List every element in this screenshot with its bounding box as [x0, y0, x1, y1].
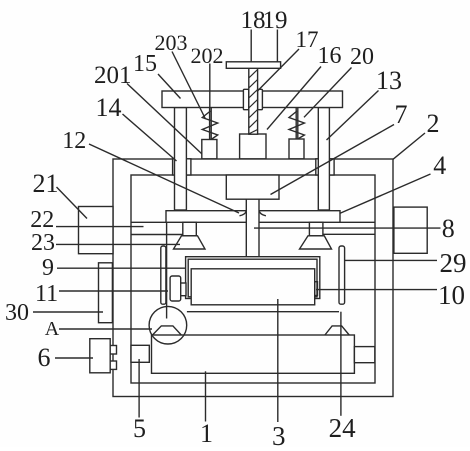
leader 6	[55, 357, 93, 359]
label 4	[433, 153, 446, 179]
label 3	[272, 423, 286, 450]
collar right flange	[258, 89, 263, 109]
base conveyor box 1	[152, 335, 355, 373]
detail circle A	[149, 306, 187, 344]
hanging rod into circle A	[166, 222, 168, 318]
left post 14	[175, 108, 187, 211]
leader A	[59, 328, 152, 330]
right step box	[354, 347, 374, 363]
leader 16	[267, 67, 321, 130]
side box 6	[90, 339, 110, 373]
left spring zigzag 203	[202, 111, 217, 140]
leader 2	[393, 133, 425, 159]
leader 22	[56, 226, 144, 228]
leader 1	[205, 371, 207, 421]
press plate 4	[166, 211, 340, 223]
left motor box 11	[170, 276, 181, 301]
leader 4	[340, 174, 431, 214]
platform line	[187, 311, 339, 313]
left slider foot	[202, 140, 217, 159]
leader 203	[172, 52, 206, 120]
outer housing box 2	[113, 159, 393, 397]
leader 7	[271, 125, 395, 195]
label 11	[35, 282, 58, 306]
leader 12	[89, 144, 239, 213]
label 24	[329, 415, 356, 442]
label 21	[33, 171, 59, 197]
leader 21	[57, 187, 88, 219]
label 5	[133, 416, 146, 442]
label 6	[38, 345, 51, 371]
label 13	[376, 68, 402, 94]
label 29	[440, 250, 467, 277]
right fillet at rod base	[259, 211, 266, 216]
right post 13	[318, 108, 329, 211]
right suction cup	[300, 236, 332, 249]
box 6 upper tab	[110, 346, 116, 355]
label 8	[442, 216, 455, 242]
label 16	[318, 44, 342, 68]
left bushing	[173, 159, 191, 175]
right pipe	[323, 222, 375, 234]
inner housing wall	[131, 175, 375, 383]
left feed box 21	[79, 207, 114, 254]
left suction neck	[183, 222, 197, 236]
box 6 lower tab	[110, 361, 116, 369]
label 2	[427, 111, 440, 137]
leader 18	[250, 30, 252, 62]
leader 15	[158, 74, 181, 99]
label 203	[155, 32, 188, 54]
leader 13	[327, 91, 379, 141]
left bump in circle A	[153, 326, 182, 335]
leader 23	[56, 243, 180, 245]
leader 3	[277, 299, 279, 422]
roller frame outer 10	[186, 257, 320, 299]
roller frame inner	[188, 259, 317, 297]
right bushing	[316, 159, 334, 175]
handle 19	[226, 62, 280, 69]
right suction neck	[309, 222, 323, 236]
press rod	[246, 199, 259, 257]
left fillet at rod base	[240, 211, 247, 216]
left nub 9	[181, 283, 186, 296]
leader 202	[209, 64, 211, 108]
label 23	[31, 231, 55, 255]
leader 10	[316, 289, 437, 291]
label 10	[438, 282, 465, 309]
label 19	[263, 8, 288, 33]
right slider foot	[289, 139, 304, 159]
label 17	[296, 28, 319, 51]
screw hatching	[249, 70, 258, 134]
leader 30	[33, 311, 103, 313]
collar left flange 17	[243, 89, 248, 109]
label 12	[62, 129, 86, 153]
label 202	[191, 45, 224, 67]
screw seat block	[240, 134, 266, 159]
top bar 15	[162, 91, 343, 108]
label 201	[94, 63, 132, 88]
label 1	[200, 421, 213, 447]
leader 20	[304, 68, 352, 118]
leader 201	[127, 84, 202, 155]
right bump 24	[325, 326, 349, 335]
leader 19	[276, 30, 278, 62]
wall box 30	[99, 263, 113, 323]
left step box 5	[131, 345, 149, 362]
left suction cup 23	[174, 236, 206, 249]
leader 8	[254, 227, 441, 229]
leader 9	[57, 267, 186, 269]
leader 11	[59, 290, 168, 292]
label 9	[42, 256, 54, 280]
label 14	[96, 95, 122, 121]
leader 5	[138, 359, 140, 418]
label 30	[5, 301, 29, 325]
cylinder block 7	[226, 175, 279, 199]
leader 29	[345, 259, 437, 261]
right guide bar 29	[339, 246, 345, 304]
label A	[45, 319, 59, 339]
right feed box 8	[394, 207, 427, 253]
right spring zigzag 16	[289, 111, 304, 140]
left pipe 22	[131, 222, 183, 234]
label 22	[30, 208, 54, 232]
right nub	[315, 282, 318, 296]
roller 3	[191, 269, 315, 305]
label 18	[241, 8, 266, 33]
right spring rod	[296, 108, 298, 140]
label 15	[133, 52, 157, 76]
leader 17	[257, 49, 299, 92]
screw shaft 18	[249, 68, 258, 134]
leader 14	[123, 114, 177, 161]
label 7	[395, 102, 408, 128]
left guide bar	[161, 246, 166, 304]
left spring rod 202	[210, 108, 212, 140]
label 20	[350, 45, 374, 69]
leader 24	[340, 312, 342, 416]
